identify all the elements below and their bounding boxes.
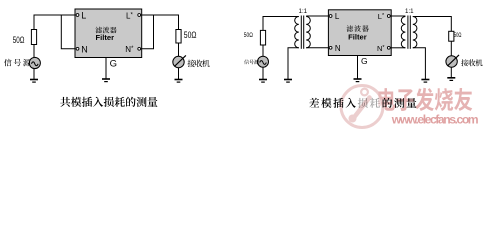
wire: T2 secondary top to R4 <box>413 17 452 32</box>
wire: M2 bottom to ground <box>450 67 452 78</box>
svg-text:L: L <box>335 12 340 21</box>
wire: common-mode bus to N input <box>61 15 76 49</box>
label 信号源 for V2 <box>244 60 259 65</box>
wire: R3 top to T1 primary <box>263 17 299 31</box>
wire: R3 bottom to source V2 <box>262 45 264 56</box>
svg-text:1:1: 1:1 <box>405 8 414 15</box>
ground (under V2) <box>259 80 267 83</box>
terminal pin U2 N <box>329 46 332 49</box>
label 接收机 for M2 <box>461 59 482 66</box>
svg-text:G: G <box>361 56 368 66</box>
watermark text 电子发烧友 <box>378 88 472 111</box>
wire: L* output to load resistor R2 <box>141 15 179 30</box>
svg-text:L: L <box>81 11 86 21</box>
wire: M1 bottom to ground <box>178 68 180 80</box>
wire: source resistor R1 top to horizontal feed <box>34 15 76 30</box>
terminal pin U2 L <box>329 15 332 18</box>
terminal pin L* <box>138 14 141 17</box>
label 信号源 for V1 <box>4 59 31 67</box>
wire: T1 secondary top to filter L <box>306 15 329 17</box>
ground (filter U2 G) <box>354 79 362 82</box>
ground (under M2) <box>447 78 455 81</box>
ground (T1 return) <box>284 80 292 83</box>
watermark logo circle <box>341 86 383 128</box>
terminal pin L <box>76 14 79 17</box>
terminal pin U2 L* <box>387 15 390 18</box>
transformer T2 core <box>408 16 410 49</box>
svg-text:G: G <box>110 59 117 70</box>
caption 共模插入损耗的测量 <box>60 97 157 107</box>
resistor R3 50Ω body <box>260 30 265 45</box>
svg-text:N: N <box>81 44 88 54</box>
label 滤波器 in U2 <box>347 25 369 32</box>
receiver (measuring instrument) M2 <box>446 55 459 67</box>
transformer T2 secondary winding <box>413 17 417 48</box>
svg-text:Filter: Filter <box>96 33 115 42</box>
ground (T2 return) <box>421 80 429 83</box>
caption 的测量 (part 2) <box>383 98 417 108</box>
wire: V2 bottom to ground <box>262 67 264 79</box>
terminal pin N <box>76 47 79 50</box>
label 接收机 for M1 <box>188 60 210 68</box>
wire: V1 bottom to ground <box>33 69 35 80</box>
terminal pin N* <box>138 47 141 50</box>
resistor R1 50Ω body <box>31 30 36 45</box>
ground (under V1) <box>30 80 38 83</box>
transformer T1 secondary winding <box>306 17 310 48</box>
filter box U2 <box>328 10 391 56</box>
svg-text:50Ω: 50Ω <box>454 32 462 39</box>
wire: R2 bottom to receiver M1 <box>178 43 180 56</box>
receiver (measuring instrument) M1 <box>173 55 186 67</box>
svg-text:www.elecfans.com: www.elecfans.com <box>391 112 479 126</box>
svg-text:1:1: 1:1 <box>299 8 308 15</box>
wire: output common bus from N* <box>141 15 154 49</box>
wire: U2 G terminal to ground <box>357 56 359 80</box>
filter box U1 <box>75 9 142 58</box>
svg-text:50Ω: 50Ω <box>184 30 197 40</box>
AC signal source V1 <box>29 57 40 68</box>
transformer T2 primary winding <box>401 17 405 48</box>
transformer T1 core <box>301 16 303 49</box>
wire: U2 N* to T2 primary bottom <box>390 47 405 49</box>
label 滤波器 in U1 <box>95 27 116 34</box>
svg-text:N: N <box>335 44 341 53</box>
wire: R1 bottom to source V1 <box>33 45 35 58</box>
svg-text:Filter: Filter <box>348 32 367 41</box>
svg-text:50Ω: 50Ω <box>13 35 25 45</box>
wire: R4 bottom to receiver M2 <box>450 41 452 56</box>
caption 差模插入损耗的测量 (part 1) <box>309 98 356 108</box>
ground (filter U1 G) <box>102 79 110 82</box>
transformer T1 primary winding <box>295 17 299 48</box>
resistor R4 50Ω load body <box>449 31 454 41</box>
wire: T2 secondary bottom return to ground <box>413 48 426 80</box>
wire: G terminal to ground <box>105 58 107 80</box>
ground (under M1) <box>175 80 183 83</box>
wire: U2 L* to T2 primary <box>390 15 405 17</box>
AC signal source V2 <box>258 56 269 67</box>
terminal pin U2 N* <box>387 46 390 49</box>
wire: T1 primary bottom return to ground <box>288 48 299 80</box>
caption 损耗 (faded under logo) <box>358 98 380 108</box>
resistor R2 50Ω load body <box>176 30 181 44</box>
wire: T1 secondary bottom to filter N <box>306 47 329 49</box>
svg-text:50Ω: 50Ω <box>244 33 254 40</box>
